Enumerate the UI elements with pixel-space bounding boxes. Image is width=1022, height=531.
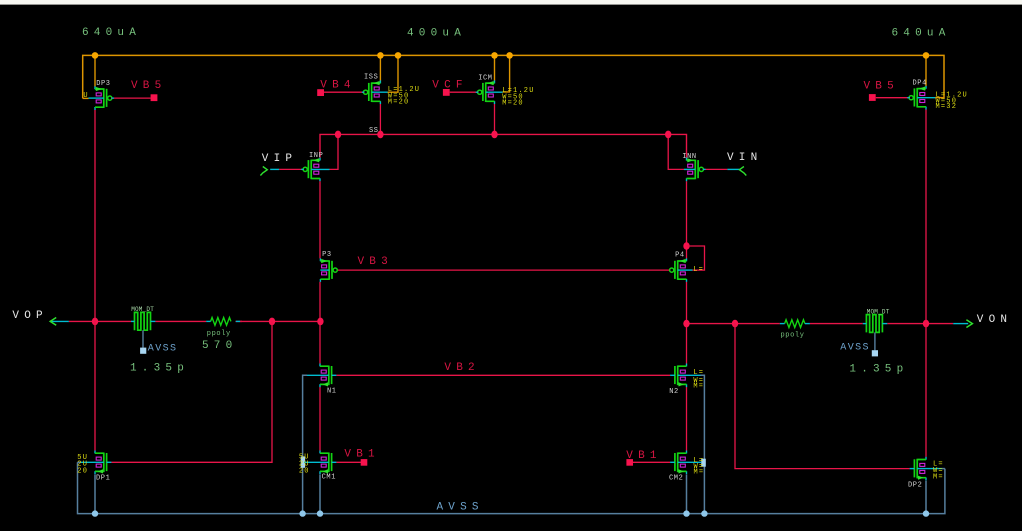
svg-text:DP4: DP4 (913, 80, 927, 88)
svg-text:CM1: CM1 (322, 474, 336, 482)
wire - CM1 gate to VB1 pin (336, 461, 361, 463)
wire - CM2 source to AVSS (686, 474, 688, 513)
svg-text:VB2: VB2 (444, 362, 479, 374)
wire - DP1 bulk (81, 461, 104, 463)
wire - DP4 bulk (917, 97, 935, 99)
wire - INP bulk (311, 168, 329, 170)
wire - N2 bulk (678, 374, 701, 376)
wire - P4 drain down through VON to N2 (686, 282, 688, 364)
wire - DP1 source to AVSS (94, 474, 96, 513)
wire - P3 drain down through VOP to N1 (319, 282, 321, 364)
svg-text:20: 20 (299, 467, 310, 475)
svg-text:ppoly: ppoly (781, 332, 805, 340)
svg-text:M=32: M=32 (936, 103, 958, 111)
pin VB1 right square (626, 459, 633, 466)
svg-text:L=: L= (693, 266, 704, 274)
svg-text:MOM_DT: MOM_DT (131, 306, 154, 313)
svg-text:N2: N2 (669, 388, 679, 396)
svg-text:AVSS: AVSS (840, 343, 870, 354)
transistor DP1 (NMOS) (95, 451, 111, 475)
pin VIP glyph (260, 167, 267, 176)
wire - ISS bulk (372, 91, 388, 93)
transistor CM1 (NMOS) (320, 451, 336, 475)
wire - DP2 source to AVSS (925, 481, 927, 514)
wire - N1 bulk (307, 374, 329, 376)
svg-text:P3: P3 (322, 251, 332, 259)
transistor DP2 (NMOS) (910, 457, 926, 481)
svg-text:VB3: VB3 (358, 256, 393, 268)
pin AVSS square right (872, 350, 878, 356)
svg-text:VB1: VB1 (344, 449, 379, 461)
wire - ICM bulk link (503, 55, 510, 92)
junction - VOP at DP1 gate riser (269, 318, 275, 326)
junction - AVSS at DP1 (92, 510, 98, 516)
junction - AVSS at N2 bulk (701, 510, 707, 516)
svg-text:CM2: CM2 (669, 474, 683, 482)
wire - DP1 gate riser from VOP (111, 321, 272, 462)
wire - INP bulk tie to SS (330, 134, 339, 169)
junction - orange at ICM source (491, 52, 498, 59)
wire - INN bulk (684, 168, 695, 170)
net VB2 rail (336, 374, 670, 376)
transistor DP3 (PMOS) (95, 86, 112, 110)
pin VIN glyph (739, 167, 746, 176)
junction - orange at ICM bulk (506, 52, 513, 59)
junction - orange at DP3 (92, 52, 99, 59)
svg-text:VIN: VIN (727, 152, 762, 164)
wire - INP drain to P3 source (319, 181, 321, 258)
svg-text:N1: N1 (327, 388, 337, 396)
wire - ISS drain to SS (379, 104, 381, 135)
svg-text:INN: INN (682, 153, 696, 161)
junction - AVSS at CM2 (683, 510, 689, 516)
tap - CM1 bulk to AVSS riser (301, 456, 305, 467)
svg-text:VCF: VCF (432, 79, 467, 91)
wire - orange stub into DP3 bulk (83, 97, 89, 99)
svg-text:VIP: VIP (262, 153, 297, 165)
wire - P4 bulk (678, 269, 693, 271)
wire - ISS source drop (379, 55, 381, 80)
capacitor C1 (MOM_DT) left (135, 312, 151, 330)
pin VB5 left square (151, 94, 158, 101)
svg-text:570: 570 (202, 340, 237, 352)
svg-text:VON: VON (977, 314, 1012, 326)
svg-text:M=: M= (933, 473, 944, 481)
junction - AVSS at N1 bulk (299, 510, 305, 516)
svg-text:ppoly: ppoly (207, 330, 231, 338)
capacitor C2 (MOM_DT) right (866, 315, 882, 333)
junction - orange at ISS source (377, 52, 384, 59)
top window strip (0, 0, 1022, 5)
junction - AVSS at DP2 (923, 510, 929, 516)
wire - ICM bulk (486, 91, 503, 93)
wire - orange top supply rail (83, 55, 944, 98)
junction - VOP at DP3/DP1 column (92, 318, 98, 326)
svg-text:DP1: DP1 (96, 475, 110, 483)
junction - SS at INN bulk (665, 131, 671, 139)
svg-text:ISS: ISS (364, 73, 378, 81)
transistor N1 (NMOS cascode) (320, 364, 336, 388)
svg-text:INP: INP (309, 152, 323, 160)
wire - DP4 drain to VON (925, 109, 927, 324)
svg-text:400uA: 400uA (407, 28, 466, 40)
junction - VON at cascode column (683, 320, 689, 328)
wire - DP3 source drop (94, 55, 96, 86)
wire - C2 substrate to AVSS (874, 332, 876, 350)
wire - SS rail (320, 134, 687, 157)
svg-text:DP2: DP2 (908, 481, 922, 489)
junction - SS at ICM drain (491, 131, 497, 139)
junction - orange at ISS bulk (395, 52, 402, 59)
svg-text:1.35p: 1.35p (849, 364, 908, 376)
svg-text:VOP: VOP (12, 310, 47, 322)
wire - DP4 source drop (925, 55, 927, 86)
svg-text:M=: M= (694, 469, 705, 477)
svg-text:AVSS: AVSS (437, 502, 484, 514)
wire - N2 source to CM2 drain (686, 387, 688, 451)
wire - DP3 bulk (89, 97, 104, 99)
transistor P3 (PMOS cascode) (320, 258, 337, 282)
wire - N1 bulk to AVSS (303, 375, 307, 513)
wire - VB4 to ISS gate (324, 91, 364, 93)
pin VB4 square (317, 89, 324, 96)
wire - INN bulk tie to SS (668, 134, 684, 169)
resistor R1 (ppoly 570) left (211, 318, 231, 326)
junction - P4 source node (683, 242, 689, 250)
junction - orange at DP4 (923, 52, 930, 59)
svg-text:U: U (83, 92, 88, 100)
svg-text:AVSS: AVSS (148, 343, 178, 354)
junction - AVSS at CM1 (317, 510, 323, 516)
wire - INN gate to VIN (703, 168, 727, 170)
wire - VOP to DP1 drain (94, 321, 96, 450)
wire - P3 bulk (320, 269, 329, 271)
junction - VON at DP4/DP2 column (923, 320, 929, 328)
output pin VON arrow (966, 320, 972, 328)
wire - DP2 bulk (917, 468, 942, 470)
wire - VON rail (687, 323, 780, 325)
wire - CM2 bulk (678, 461, 702, 463)
wire - VB1 pin to CM2 gate (633, 461, 670, 463)
transistor INN (PMOS) (687, 158, 704, 182)
wire - INN drain to P4 source (686, 181, 688, 258)
pin VB1 left square (361, 459, 368, 466)
wire - VIP to INP gate (279, 168, 304, 170)
wire - C1 substrate to AVSS (142, 330, 144, 348)
wire - DP2 gate riser from VON (735, 324, 910, 469)
svg-text:DP3: DP3 (96, 80, 110, 88)
pin AVSS square left (140, 348, 146, 354)
wire - P4 bulk loop (687, 246, 705, 270)
svg-text:M=: M= (693, 382, 704, 390)
pin VB5 right square (869, 94, 876, 101)
svg-text:640uA: 640uA (82, 27, 141, 39)
svg-text:VB5: VB5 (131, 80, 166, 92)
transistor CM2 (NMOS) (670, 451, 686, 475)
transistor ISS (PMOS) (364, 80, 381, 104)
junction - VON at DP2 gate riser (732, 320, 738, 328)
svg-text:640uA: 640uA (892, 28, 951, 40)
junction - SS at INP bulk (335, 131, 341, 139)
wire - CM1 source to AVSS (319, 474, 321, 513)
svg-text:1.35p: 1.35p (130, 362, 189, 374)
svg-text:SS: SS (369, 127, 379, 135)
svg-text:VB4: VB4 (320, 80, 355, 92)
wire - VOP rail (51, 320, 69, 322)
transistor P4 (PMOS cascode) (670, 258, 687, 282)
junction - SS at ISS drain (377, 131, 383, 139)
svg-text:M=20: M=20 (502, 99, 524, 107)
svg-text:VB1: VB1 (626, 450, 661, 462)
wire - N1 source to CM1 drain (319, 387, 321, 451)
wire - VON to DP2 drain (925, 324, 927, 457)
svg-text:M=20: M=20 (388, 98, 410, 106)
transistor INP (PMOS) (303, 158, 320, 182)
wire - VCF to ICM gate (450, 91, 479, 93)
wire - ICM drain to SS (494, 104, 496, 135)
wire - DP3 gate to VB5 (111, 97, 151, 99)
wire - VB5 to DP4 gate (876, 97, 910, 99)
tap - CM2 bulk to AVSS riser (701, 459, 706, 467)
resistor R2 (ppoly) right (785, 320, 805, 328)
transistor ICM (PMOS) (478, 80, 495, 104)
wire - DP3 drain to VOP (94, 109, 96, 321)
transistor DP4 (PMOS) (909, 86, 926, 110)
svg-text:VB5: VB5 (864, 80, 899, 92)
wire - ISS bulk link (388, 55, 398, 92)
svg-text:ICM: ICM (478, 74, 492, 82)
junction - VOP at cascode column (317, 318, 323, 326)
svg-text:P4: P4 (675, 252, 685, 260)
wire - CM1 bulk (304, 461, 329, 463)
wire - ICM source drop (494, 55, 496, 80)
wire - N2 bulk to AVSS (701, 375, 705, 513)
wire - cyan tips at gate bubbles (111, 97, 114, 99)
svg-text:20: 20 (77, 467, 88, 475)
transistor N2 (NMOS cascode) (670, 364, 686, 388)
net VB3 rail (337, 269, 669, 271)
pin VCF square (443, 89, 450, 96)
svg-text:MOM_DT: MOM_DT (867, 308, 890, 315)
output pin VOP arrow (50, 318, 56, 326)
net AVSS bottom rail (78, 462, 945, 513)
